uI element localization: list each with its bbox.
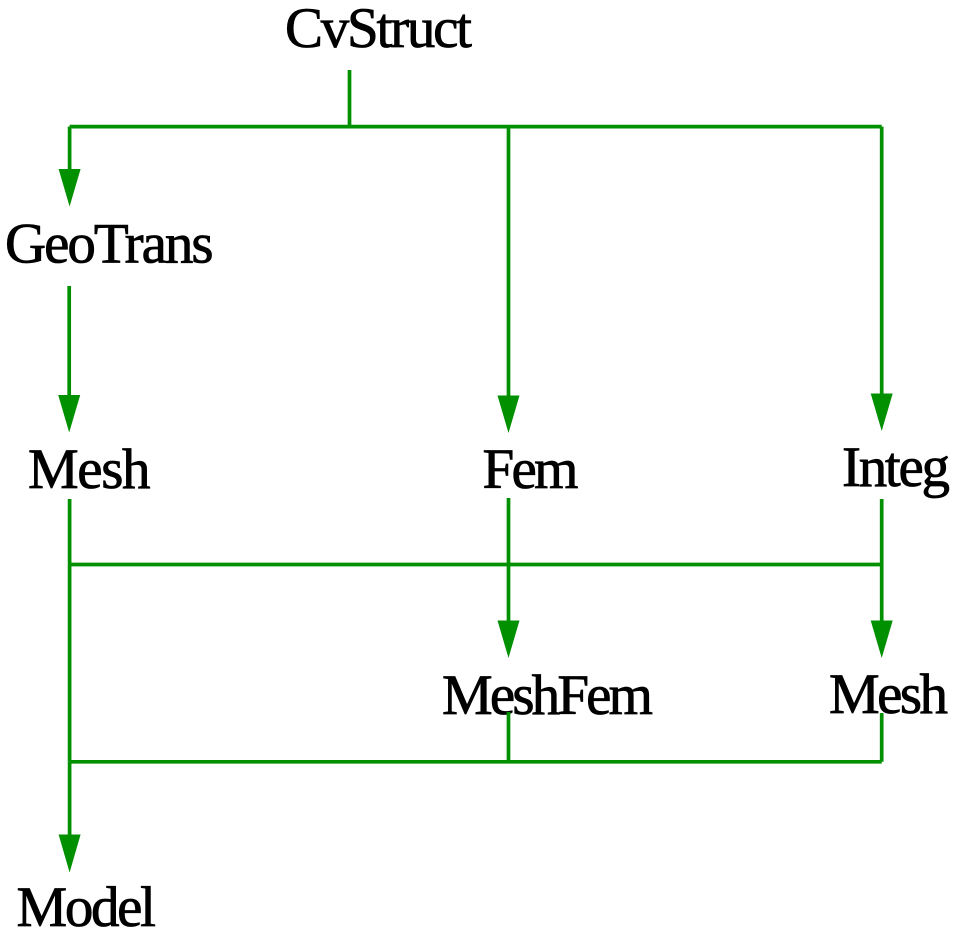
wire middle rail bbox=[70, 563, 882, 567]
arrow GeoTrans to Mesh bbox=[67, 286, 71, 398]
wire CvStruct stem bbox=[348, 70, 352, 128]
wire Integ down bbox=[880, 499, 884, 565]
arrow to Model bbox=[68, 762, 72, 837]
svg-text:Model: Model bbox=[17, 876, 157, 931]
arrow CvStruct to Fem bbox=[507, 127, 511, 398]
svg-text:Mesh: Mesh bbox=[829, 663, 948, 726]
svg-text:Integ: Integ bbox=[842, 436, 950, 499]
wire Fem down bbox=[507, 498, 511, 565]
svg-text:CvStruct: CvStruct bbox=[285, 0, 472, 60]
wire Mesh2 down bbox=[880, 713, 884, 762]
arrow to Mesh2 bbox=[880, 565, 884, 624]
svg-text:GeoTrans: GeoTrans bbox=[5, 213, 214, 276]
arrow CvStruct to Integ bbox=[880, 127, 884, 396]
arrow to MeshFem bbox=[507, 565, 511, 624]
wire bottom rail bbox=[70, 760, 882, 764]
arrow CvStruct to GeoTrans bbox=[68, 127, 72, 172]
wire top rail bbox=[70, 125, 882, 129]
svg-text:Mesh: Mesh bbox=[28, 438, 151, 501]
svg-text:Fem: Fem bbox=[483, 438, 579, 501]
wire MeshFem down bbox=[507, 712, 511, 762]
svg-text:MeshFem: MeshFem bbox=[442, 664, 653, 727]
wire Mesh down bbox=[68, 499, 72, 762]
